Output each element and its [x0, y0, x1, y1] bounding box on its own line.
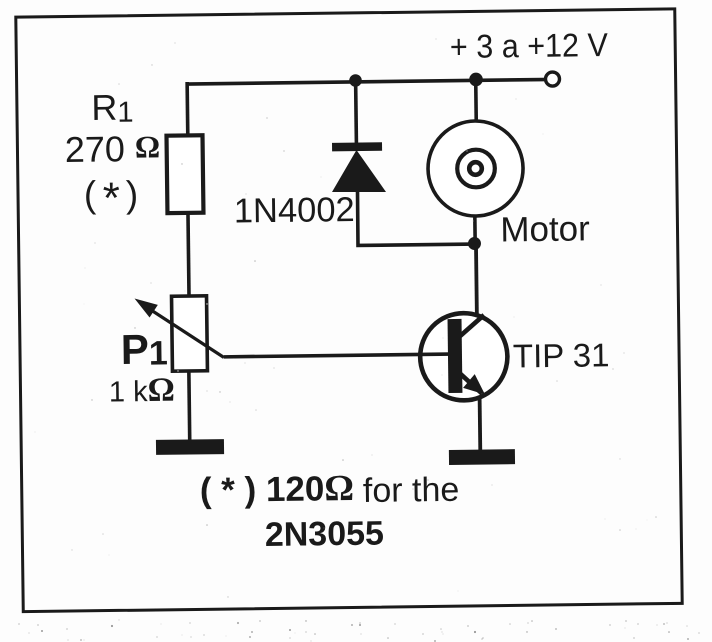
svg-text:TIP 31: TIP 31: [513, 336, 610, 374]
wire motor top: [474, 79, 478, 121]
node motor-supply junction: [469, 73, 483, 87]
transistor Q1 TIP 31 body circle: [420, 313, 508, 401]
wire diode cathode to motor node: [357, 189, 474, 245]
svg-text:(: (: [84, 174, 98, 215]
node motor-collector junction: [468, 237, 481, 250]
node diode-supply junction: [349, 74, 362, 87]
resistor R1: [166, 135, 203, 213]
svg-text:270 Ω: 270 Ω: [65, 128, 161, 170]
svg-text:+ 3 a +12 V: + 3 a +12 V: [450, 26, 608, 65]
diode D1 cathode bar: [332, 142, 382, 151]
svg-text:*: *: [102, 174, 120, 223]
wire P1 wiper to Q1 base: [224, 354, 450, 357]
motor M center hub: [469, 162, 482, 175]
svg-text:2N3055: 2N3055: [265, 514, 385, 553]
svg-text:Motor: Motor: [500, 209, 590, 249]
potentiometer P1 body: [172, 296, 208, 371]
ground right: [449, 449, 515, 465]
potentiometer P1 arrowhead: [135, 298, 158, 317]
wire diode anode drop: [354, 79, 358, 144]
wire R1 top: [185, 82, 189, 137]
transistor Q1 base bar: [448, 319, 463, 393]
motor M outer circle: [427, 120, 523, 216]
svg-text:for the: for the: [363, 471, 460, 510]
ground left: [156, 439, 224, 455]
svg-text:): ): [126, 174, 139, 215]
potentiometer P1 wiper arrow shaft: [148, 307, 224, 358]
svg-text:( * ) 120Ω: ( * ) 120Ω: [200, 468, 355, 511]
wire collector: [474, 243, 479, 322]
svg-text:R1: R1: [91, 86, 134, 129]
transistor Q1 collector stroke: [459, 315, 484, 337]
motor M middle circle: [457, 149, 495, 187]
wire emitter to ground: [478, 393, 483, 452]
wire supply rail: [186, 79, 552, 84]
wire motor bottom: [473, 217, 477, 245]
svg-text:1N4002: 1N4002: [234, 191, 355, 231]
wire R1 to P1: [188, 211, 189, 297]
transistor Q1 emitter stroke: [460, 373, 482, 394]
terminal supply +V: [545, 72, 559, 86]
transistor Q1 emitter arrowhead: [463, 374, 485, 395]
svg-text:1 kΩ: 1 kΩ: [109, 372, 175, 410]
diode D1 triangle: [331, 150, 386, 193]
wire P1 to ground: [187, 369, 192, 442]
svg-text:P1: P1: [120, 325, 168, 373]
